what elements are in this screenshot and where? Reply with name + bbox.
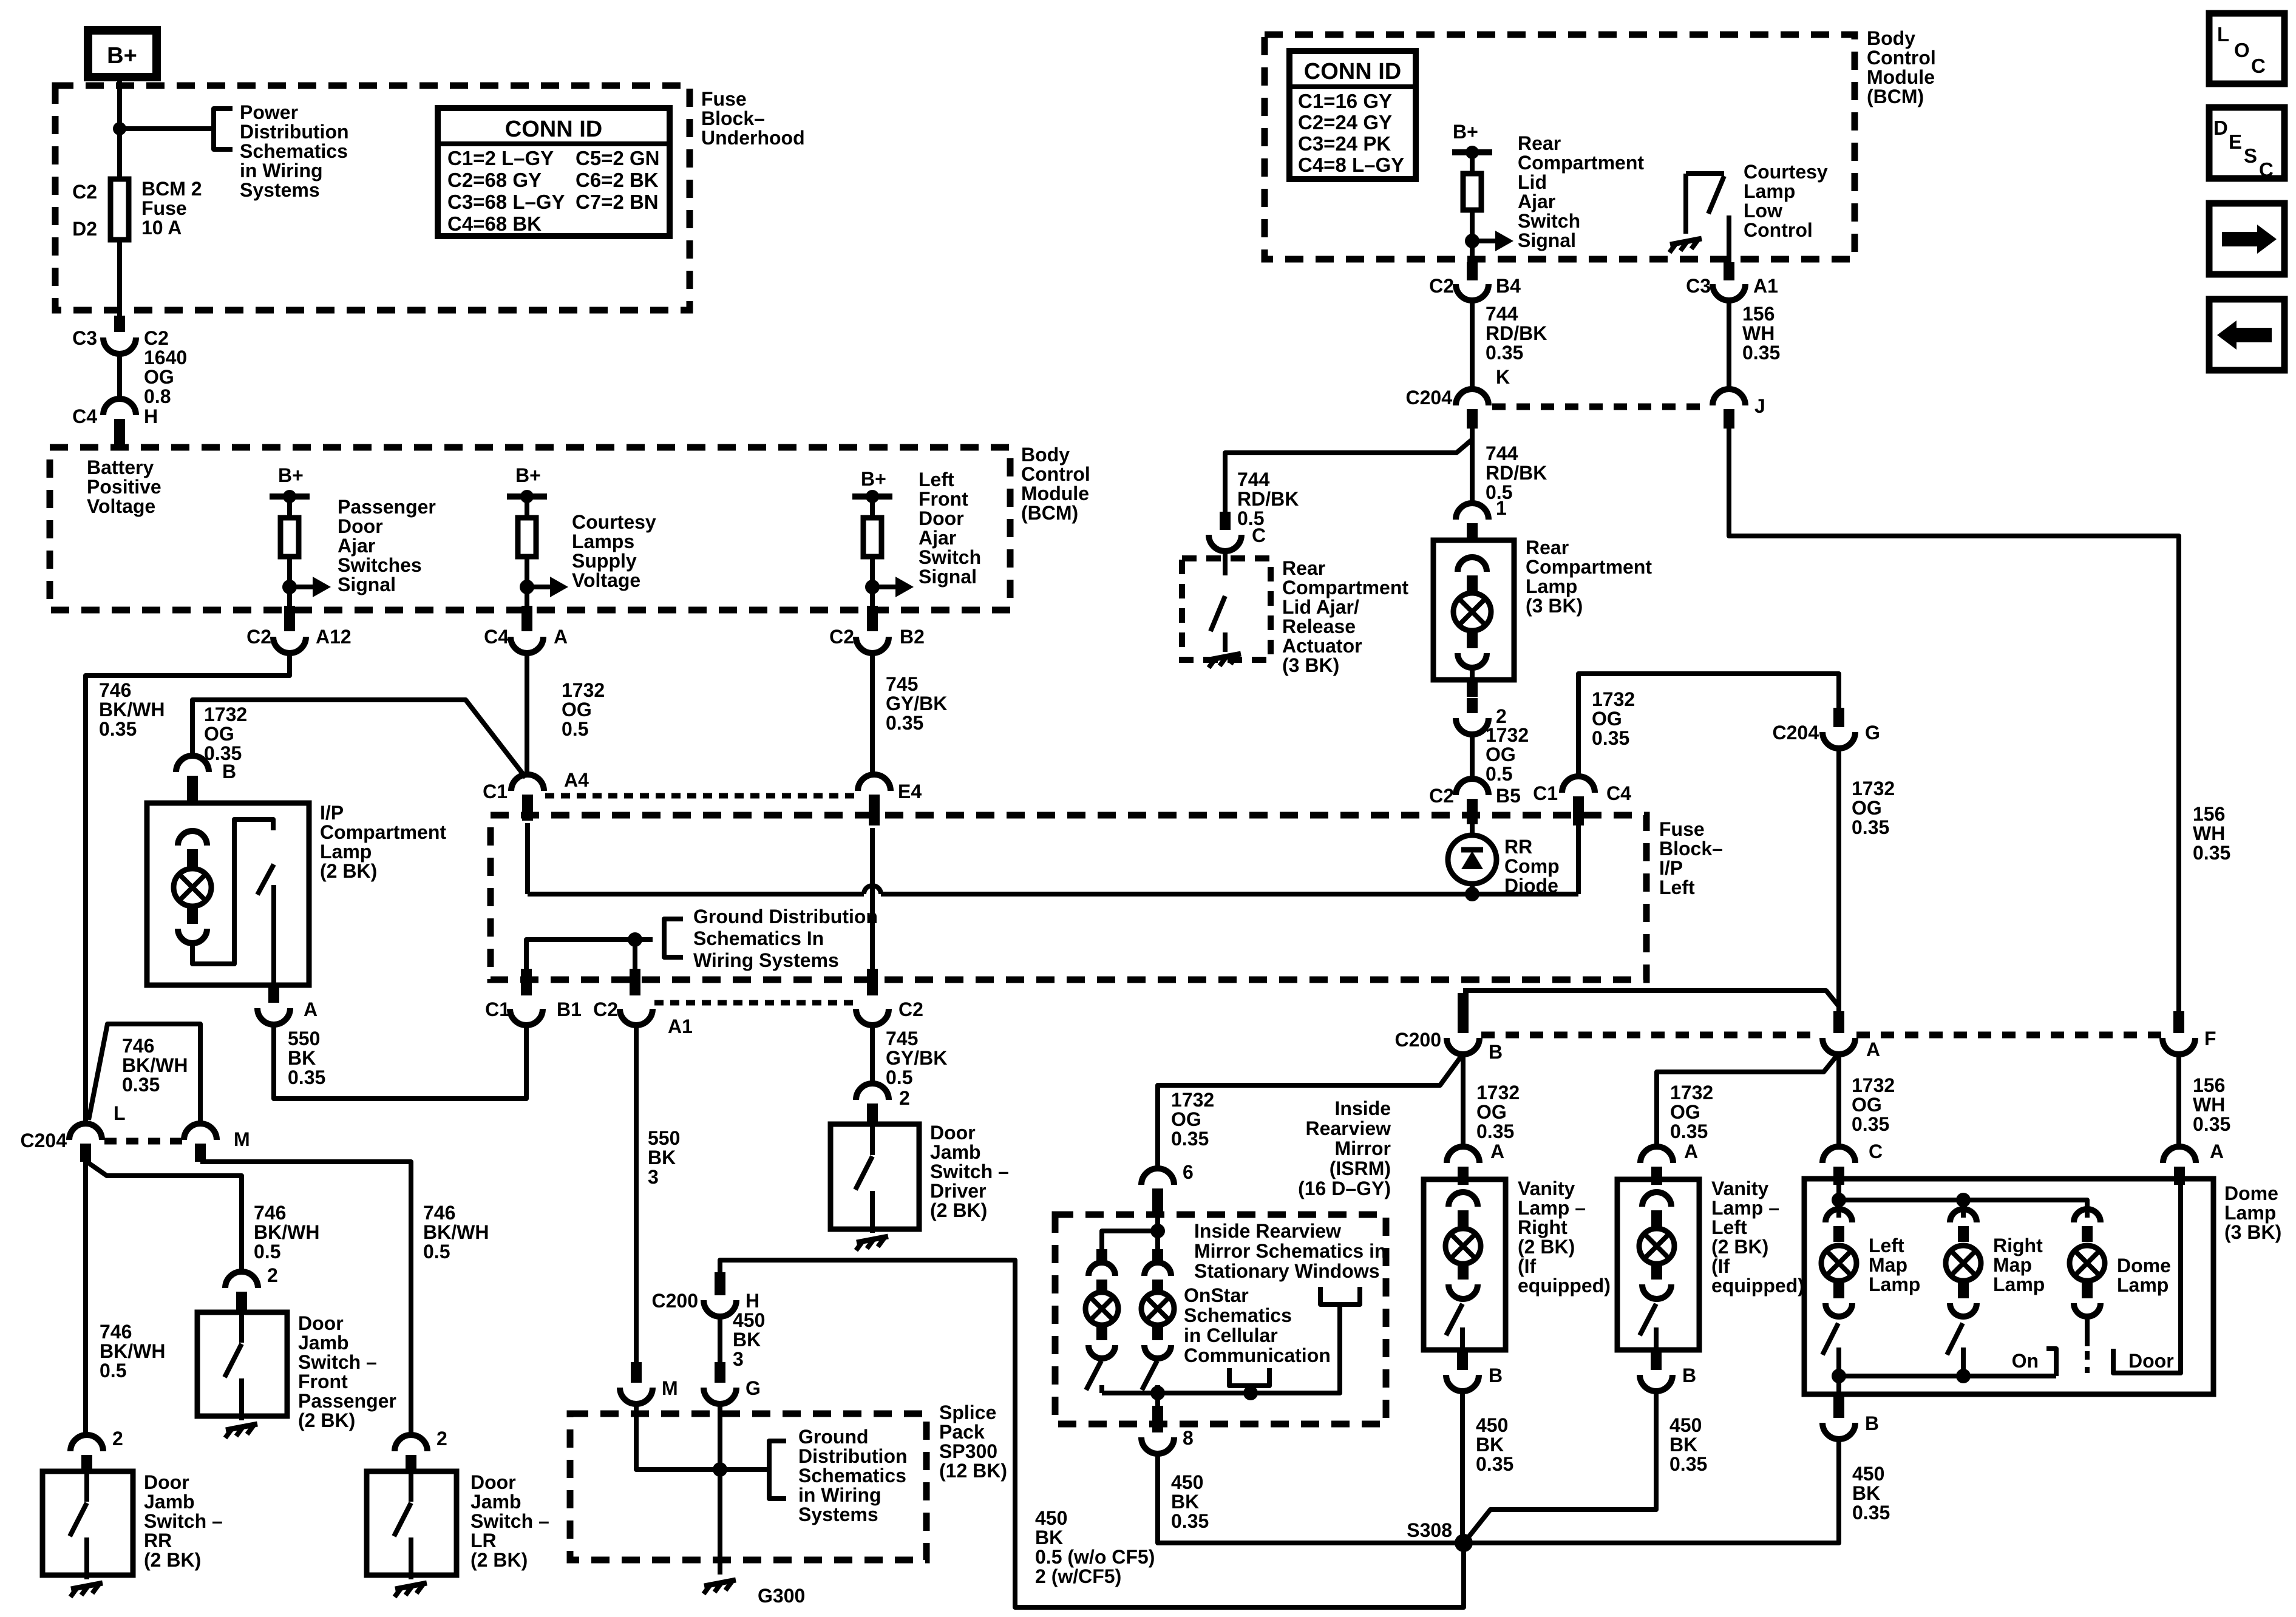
- svg-text:OG: OG: [144, 366, 174, 388]
- component box Vanity Lamp - Left: [1617, 1179, 1699, 1350]
- svg-text:Lamp: Lamp: [1744, 180, 1795, 202]
- wire 8 pin from bus: [1155, 1393, 1160, 1408]
- switch blade (right map lamp): [1947, 1323, 1963, 1355]
- power symbol B+ (battery feed, top left): [88, 30, 157, 77]
- svg-text:Ground Distribution: Ground Distribution: [693, 906, 878, 927]
- bulb socket bottom (vanity left): [1642, 1284, 1671, 1299]
- wire branch to actuator connector C: [1225, 439, 1472, 514]
- switch blade (mirror lamp left): [1086, 1361, 1101, 1390]
- junction dome feed left: [1832, 1193, 1846, 1207]
- svg-text:On: On: [2012, 1350, 2039, 1372]
- svg-text:Compartment: Compartment: [320, 821, 446, 843]
- connector G pin (splice pack): [715, 1362, 725, 1383]
- svg-text:C2=68 GY: C2=68 GY: [447, 169, 542, 191]
- svg-text:Driver: Driver: [930, 1180, 987, 1202]
- lamp I/P compartment: [174, 869, 211, 906]
- svg-text:L: L: [114, 1102, 126, 1124]
- svg-text:SP300: SP300: [939, 1440, 997, 1462]
- junction dome bus middle: [1956, 1369, 1971, 1383]
- svg-text:Block–: Block–: [701, 107, 765, 129]
- connector A (vanity right): [1447, 1147, 1479, 1163]
- svg-text:Battery: Battery: [87, 456, 154, 478]
- svg-text:C: C: [1252, 524, 1266, 546]
- svg-text:Mirror Schematics in: Mirror Schematics in: [1194, 1240, 1387, 1262]
- wire 1640 OG 0.8: [117, 354, 122, 399]
- bulb socket top (vanity right): [1449, 1192, 1478, 1207]
- svg-text:550: 550: [288, 1028, 320, 1049]
- svg-text:(2 BK): (2 BK): [144, 1549, 201, 1571]
- svg-text:Jamb: Jamb: [470, 1491, 521, 1513]
- wire 6 into ISRM box: [1155, 1198, 1160, 1231]
- svg-text:OG: OG: [1476, 1101, 1507, 1123]
- switch courtesy lamp low control: [1683, 174, 1688, 234]
- junction on B+ wire: [113, 122, 126, 135]
- svg-text:GY/BK: GY/BK: [886, 1047, 947, 1069]
- svg-text:Pack: Pack: [939, 1421, 985, 1443]
- svg-text:0.5 (w/o CF5): 0.5 (w/o CF5): [1035, 1546, 1155, 1568]
- svg-text:Courtesy: Courtesy: [572, 511, 656, 533]
- svg-text:Left: Left: [1659, 876, 1695, 898]
- connector 2 (rear lamp): [1456, 718, 1489, 734]
- connector 1 pin (rear compartment lamp): [1467, 523, 1478, 543]
- connector A pin (dome lamp door feed): [2174, 1167, 2185, 1185]
- svg-text:Signal: Signal: [919, 566, 977, 588]
- svg-text:BK/WH: BK/WH: [99, 699, 165, 720]
- svg-text:M: M: [234, 1128, 250, 1150]
- fuse BCM 2 10A: [110, 179, 129, 240]
- icon box arrow right: [2209, 203, 2284, 274]
- table CONN ID (BCM): [1289, 51, 1416, 179]
- dashed box Body Control Module (battery positive voltage section): [50, 447, 1010, 610]
- svg-text:OnStar: OnStar: [1184, 1284, 1249, 1306]
- wire 1732 OG 0.35 from B down to vanity right A: [1461, 1054, 1466, 1147]
- connector C2/A1 pin: [630, 969, 640, 995]
- svg-text:S308: S308: [1407, 1519, 1452, 1541]
- switch blade (front passenger): [225, 1344, 242, 1377]
- svg-text:Left: Left: [919, 469, 954, 490]
- svg-text:C2: C2: [593, 998, 618, 1020]
- wire B+ box down to BCM2 fuse: [117, 77, 122, 179]
- wire 1732 OG 0.35 branch to vanity left A: [1657, 1053, 1839, 1147]
- svg-text:450: 450: [1852, 1463, 1884, 1485]
- switch lower contact to A: [271, 885, 276, 985]
- bracket ISRM schematics reference: [1320, 1287, 1360, 1304]
- svg-text:450: 450: [733, 1309, 765, 1331]
- svg-text:Systems: Systems: [240, 179, 320, 201]
- svg-text:BK: BK: [733, 1329, 761, 1351]
- switch wire (RR): [84, 1471, 89, 1502]
- connector C4/H: [103, 399, 136, 415]
- svg-text:2: 2: [899, 1087, 910, 1109]
- resistance passenger door ajar switches: [280, 518, 299, 557]
- connector C2/A12: [273, 637, 306, 653]
- svg-text:Body: Body: [1021, 444, 1070, 466]
- svg-text:746: 746: [122, 1035, 154, 1057]
- switch contact (vanity left): [1654, 1327, 1659, 1350]
- svg-text:0.5: 0.5: [562, 718, 588, 740]
- connector A (vanity left): [1640, 1147, 1673, 1163]
- switch wire (front passenger): [239, 1312, 244, 1343]
- dashed box Body Control Module (rear section): [1265, 35, 1855, 259]
- svg-text:OG: OG: [1852, 1094, 1882, 1116]
- connector C204/J: [1713, 389, 1745, 405]
- wire 746 BK/WH 0.35 from A12 to C204 L: [86, 653, 290, 1123]
- connector C200/B pin: [1458, 993, 1469, 1033]
- wire branch 1732 OG 0.35 to I/P lamp B: [192, 700, 526, 778]
- connector C2/B5 pin: [1467, 799, 1478, 824]
- svg-text:C200: C200: [1395, 1029, 1442, 1051]
- junction dome bus left: [1832, 1369, 1846, 1383]
- svg-text:C1: C1: [485, 998, 510, 1020]
- svg-text:C204: C204: [21, 1130, 67, 1151]
- wire dome lamp moving contact: [2085, 1318, 2090, 1346]
- connector C4/H pin: [114, 419, 125, 447]
- dashed connector line C200 B-A: [1481, 1032, 1821, 1039]
- svg-text:Fuse: Fuse: [141, 197, 187, 219]
- svg-text:C200: C200: [652, 1290, 699, 1312]
- wire junction to reference bracket: [720, 1467, 769, 1472]
- connector C pin (dome lamp): [1833, 1167, 1844, 1185]
- svg-text:A: A: [1866, 1039, 1880, 1060]
- lamp rear compartment: [1453, 593, 1491, 631]
- svg-text:744: 744: [1486, 303, 1518, 325]
- svg-text:A: A: [1490, 1141, 1504, 1162]
- svg-text:BK: BK: [1852, 1482, 1880, 1504]
- bulb socket bottom (left map lamp): [1826, 1303, 1852, 1317]
- svg-text:0.35: 0.35: [886, 712, 923, 734]
- svg-text:WH: WH: [2193, 1094, 2225, 1116]
- svg-text:CONN ID: CONN ID: [505, 117, 602, 142]
- svg-text:C1=16 GY: C1=16 GY: [1298, 90, 1392, 112]
- bracket power distribution reference: [214, 109, 233, 149]
- svg-text:B+: B+: [515, 464, 541, 486]
- svg-text:Switch –: Switch –: [470, 1510, 549, 1532]
- junction OnStar stem on bus: [1243, 1386, 1258, 1400]
- switch contact (LR): [409, 1537, 413, 1579]
- wire dome lamp B out: [1836, 1376, 1841, 1394]
- wire 156 WH 0.35 from J over to F: [1729, 425, 2179, 1014]
- wire 450 BK 0.35 vanity right to S308: [1460, 1391, 1465, 1543]
- svg-text:A: A: [554, 626, 568, 648]
- svg-text:Lamp: Lamp: [1993, 1273, 2045, 1295]
- wire 450 BK 0.35 from 8 to S308: [1158, 1453, 1457, 1543]
- svg-text:0.35: 0.35: [1742, 342, 1780, 364]
- svg-text:Front: Front: [919, 488, 968, 510]
- svg-text:2 (w/CF5): 2 (w/CF5): [1035, 1565, 1121, 1587]
- lamp mirror left: [1085, 1292, 1118, 1325]
- svg-text:Right: Right: [1518, 1216, 1567, 1238]
- component box Door Jamb Switch - LR: [367, 1471, 457, 1575]
- connector 2 pin (RR): [81, 1455, 92, 1471]
- svg-text:0.35: 0.35: [1486, 342, 1523, 364]
- connector C1/A4 pin: [522, 795, 533, 821]
- svg-text:Vanity: Vanity: [1711, 1178, 1768, 1199]
- wire diode to feed line junction: [1470, 884, 1475, 894]
- switch blade courtesy lamp low control: [1708, 176, 1724, 214]
- wire mid map lamp column: [1961, 1200, 1966, 1218]
- svg-text:D: D: [2213, 117, 2228, 139]
- resistance left front door ajar switch: [863, 518, 881, 557]
- svg-text:(ISRM): (ISRM): [1330, 1158, 1391, 1179]
- connector C204/L pin: [80, 1144, 91, 1162]
- wire 156 WH 0.35 from F to dome A: [2176, 1054, 2181, 1147]
- svg-text:2: 2: [267, 1264, 278, 1286]
- bulb socket top (mirror lamp left): [1089, 1263, 1115, 1276]
- svg-text:WH: WH: [1742, 322, 1775, 344]
- svg-text:Map: Map: [1869, 1254, 1907, 1276]
- svg-text:C2: C2: [72, 181, 97, 203]
- svg-text:Distribution: Distribution: [240, 121, 349, 143]
- connector B (I/P compartment lamp): [176, 756, 209, 772]
- lamp vanity left: [1639, 1229, 1674, 1264]
- svg-text:C1: C1: [1533, 782, 1558, 804]
- wire 550 BK 0.35 from A to B1: [274, 1023, 526, 1099]
- svg-text:0.35: 0.35: [2193, 1113, 2230, 1135]
- wire 1732 OG 0.35 from C4 up over to C204 G: [1578, 674, 1839, 777]
- arrow passenger door ajar switches signal: [282, 580, 297, 594]
- switch contact (right map lamp): [1961, 1347, 1966, 1376]
- svg-text:C3=68 L–GY: C3=68 L–GY: [447, 191, 565, 213]
- svg-text:C: C: [2259, 158, 2274, 181]
- svg-text:(2 BK): (2 BK): [320, 860, 377, 882]
- svg-text:0.35: 0.35: [1476, 1453, 1513, 1475]
- svg-text:C2: C2: [246, 626, 271, 648]
- switch blade (lid ajar/release actuator): [1211, 596, 1225, 631]
- connector B pin (dome lamp): [1833, 1392, 1844, 1418]
- svg-text:C1: C1: [483, 781, 508, 802]
- wire 1 into rear compartment lamp: [1470, 497, 1475, 505]
- svg-text:K: K: [1496, 366, 1510, 388]
- svg-text:0.35: 0.35: [1852, 1113, 1889, 1135]
- svg-text:Dome: Dome: [2117, 1255, 2171, 1276]
- svg-text:BK: BK: [648, 1147, 676, 1168]
- bulb socket top (right map lamp): [1950, 1209, 1977, 1222]
- svg-text:C4: C4: [1606, 782, 1631, 804]
- svg-text:Lamp: Lamp: [2224, 1202, 2276, 1224]
- svg-text:Dome: Dome: [2224, 1182, 2278, 1204]
- connector C3/A1: [1713, 284, 1745, 300]
- connector C2/B4: [1456, 284, 1489, 300]
- svg-text:C7=2 BN: C7=2 BN: [576, 191, 659, 213]
- dome feed bus: [1839, 1200, 2087, 1218]
- wire G to ground G300: [718, 1403, 722, 1575]
- component box I/P Compartment Lamp: [147, 803, 309, 985]
- bulb socket bottom (I/P lamp): [178, 929, 207, 943]
- lamp left map: [1821, 1246, 1856, 1281]
- wire 1732 OG 0.5 from A to A4: [525, 653, 529, 776]
- wire B+ to output B2: [870, 497, 875, 608]
- svg-text:B: B: [1865, 1412, 1879, 1434]
- connector C1/B1 pin: [521, 969, 532, 995]
- connector C3/C2: [103, 337, 136, 354]
- connector C (dome lamp): [1822, 1147, 1855, 1163]
- svg-text:Rear: Rear: [1282, 557, 1325, 579]
- svg-text:RD/BK: RD/BK: [1486, 322, 1547, 344]
- wire 450 BK 0.35 vanity left to S308: [1467, 1391, 1656, 1539]
- svg-text:Control: Control: [1744, 219, 1813, 241]
- connector C3/C2 pin: [114, 316, 125, 332]
- svg-text:1732: 1732: [562, 679, 605, 701]
- svg-text:1: 1: [1496, 497, 1507, 519]
- connector C2/E4 pin: [869, 795, 880, 825]
- bulb socket top (left map lamp): [1826, 1209, 1852, 1222]
- svg-text:Ajar: Ajar: [1518, 191, 1555, 212]
- svg-text:RD/BK: RD/BK: [1237, 488, 1299, 510]
- stem OnStar bracket to bus: [1248, 1386, 1253, 1393]
- svg-text:OG: OG: [1592, 708, 1622, 730]
- dashed BCM connector line A4-E4: [545, 793, 857, 799]
- svg-text:1732: 1732: [1171, 1089, 1214, 1111]
- ground (LR jamb switch): [395, 1583, 427, 1589]
- bulb socket bottom (right map lamp): [1950, 1303, 1977, 1317]
- svg-text:OG: OG: [1486, 744, 1516, 765]
- svg-text:Ajar: Ajar: [919, 527, 956, 549]
- svg-text:Fuse: Fuse: [1659, 818, 1705, 840]
- connector G (splice pack): [704, 1388, 736, 1404]
- wire A4 down to fuse block feed line: [525, 823, 530, 894]
- connector 2 pin (driver jamb): [867, 1103, 878, 1123]
- connector C204/K: [1456, 389, 1489, 405]
- connector C2/B2 pin: [867, 606, 878, 631]
- svg-text:0.35: 0.35: [99, 718, 137, 740]
- svg-text:BK: BK: [1171, 1491, 1199, 1513]
- svg-text:BCM 2: BCM 2: [141, 178, 202, 200]
- svg-text:0.35: 0.35: [1852, 1502, 1890, 1524]
- svg-text:C2: C2: [144, 327, 169, 349]
- svg-text:(3 BK): (3 BK): [1282, 654, 1339, 676]
- svg-text:745: 745: [886, 673, 918, 695]
- svg-text:(2 BK): (2 BK): [470, 1549, 528, 1571]
- svg-text:Inside: Inside: [1335, 1097, 1391, 1119]
- svg-text:C2=24 GY: C2=24 GY: [1298, 111, 1392, 134]
- wire ISRM feed down to right mirror lamp: [1155, 1231, 1160, 1249]
- switch wire (LR): [409, 1471, 413, 1502]
- wire 156 WH 0.35 from A1 to C204 J: [1727, 300, 1731, 391]
- svg-text:(2 BK): (2 BK): [1518, 1236, 1575, 1258]
- connector A (dome lamp door feed): [2163, 1147, 2196, 1163]
- svg-text:M: M: [662, 1377, 678, 1399]
- svg-text:Wiring Systems: Wiring Systems: [693, 949, 839, 971]
- wire courtesy lamp low control to C3/A1: [1727, 215, 1731, 280]
- Door contact bracket fed by A: [2113, 1179, 2181, 1373]
- svg-text:RD/BK: RD/BK: [1486, 462, 1547, 484]
- svg-text:OG: OG: [1670, 1101, 1700, 1123]
- svg-text:Schematics: Schematics: [1184, 1304, 1292, 1326]
- svg-text:C3: C3: [1686, 275, 1711, 297]
- svg-text:Door: Door: [930, 1122, 976, 1144]
- svg-text:0.35: 0.35: [1171, 1510, 1209, 1532]
- icon box LOC: [2209, 13, 2284, 84]
- svg-text:0.35: 0.35: [1669, 1453, 1707, 1475]
- svg-text:A4: A4: [564, 769, 589, 791]
- switch contact (left map lamp): [1836, 1347, 1841, 1376]
- svg-text:C: C: [2251, 55, 2266, 77]
- svg-text:3: 3: [648, 1166, 659, 1188]
- wire 1732 OG 0.35 from B to ISRM 6: [1158, 1054, 1463, 1169]
- svg-text:G: G: [746, 1377, 761, 1399]
- svg-text:1732: 1732: [1486, 724, 1529, 746]
- svg-text:C2: C2: [1429, 275, 1454, 297]
- svg-text:Schematics: Schematics: [240, 140, 348, 162]
- svg-text:BK/WH: BK/WH: [100, 1340, 165, 1362]
- switch contact (vanity right): [1460, 1327, 1465, 1350]
- connector B (vanity left): [1640, 1375, 1673, 1391]
- svg-text:Left: Left: [1869, 1235, 1904, 1256]
- svg-text:Ajar: Ajar: [338, 535, 375, 557]
- wire left map lamp column: [1836, 1200, 1841, 1218]
- switch wire (driver jamb): [870, 1124, 875, 1155]
- svg-text:BK: BK: [1035, 1527, 1063, 1548]
- svg-text:450: 450: [1476, 1414, 1508, 1436]
- svg-text:Lid: Lid: [1518, 171, 1547, 193]
- svg-text:Lamp: Lamp: [2117, 1274, 2169, 1296]
- svg-text:744: 744: [1237, 469, 1270, 490]
- svg-text:Release: Release: [1282, 615, 1356, 637]
- switch blade (LR): [394, 1503, 411, 1536]
- svg-text:RR: RR: [1504, 836, 1532, 858]
- svg-text:(3 BK): (3 BK): [2224, 1221, 2281, 1243]
- svg-text:C5=2 GN: C5=2 GN: [576, 147, 659, 169]
- wire to power-distribution reference bracket: [120, 126, 214, 131]
- bulb socket bottom (dome lamp): [2074, 1303, 2101, 1317]
- svg-text:C2: C2: [829, 626, 854, 648]
- lamp vanity right: [1445, 1229, 1481, 1264]
- svg-text:2: 2: [436, 1428, 447, 1449]
- svg-text:E: E: [2229, 131, 2242, 153]
- junction mirror right on bus: [1150, 1386, 1165, 1400]
- connector 6 pin (ISRM): [1152, 1188, 1163, 1213]
- dashed BCM connector line A1-C2: [654, 1000, 853, 1006]
- bulb socket top (vanity left): [1642, 1192, 1671, 1207]
- wire 550 BK 3 from A1 to splice pack M: [634, 1025, 639, 1366]
- switch blade (mirror lamp right): [1142, 1361, 1157, 1390]
- svg-text:in Wiring: in Wiring: [798, 1484, 881, 1506]
- svg-text:Power: Power: [240, 101, 298, 123]
- switch contact (actuator) to ground: [1223, 632, 1228, 652]
- ISRM ground bus: [1102, 1304, 1340, 1393]
- svg-text:Voltage: Voltage: [572, 569, 640, 591]
- dome switch ground bus (On position): [1839, 1374, 1963, 1378]
- svg-text:Inside Rearview: Inside Rearview: [1194, 1220, 1341, 1242]
- svg-text:B+: B+: [861, 468, 886, 490]
- svg-text:0.35: 0.35: [1171, 1128, 1209, 1150]
- connector C204/M: [184, 1124, 217, 1140]
- svg-text:OG: OG: [1171, 1108, 1201, 1130]
- svg-text:Switch –: Switch –: [930, 1161, 1009, 1182]
- svg-text:(BCM): (BCM): [1021, 502, 1078, 524]
- svg-text:Module: Module: [1867, 66, 1935, 88]
- svg-text:2: 2: [112, 1428, 123, 1449]
- connector C204/J pin: [1724, 409, 1734, 429]
- svg-text:Positive: Positive: [87, 476, 161, 498]
- svg-text:Signal: Signal: [1518, 229, 1576, 251]
- svg-text:Vanity: Vanity: [1518, 1178, 1575, 1199]
- wire B+ to output A12: [287, 497, 292, 608]
- svg-text:C6=2 BK: C6=2 BK: [576, 169, 659, 191]
- svg-text:(12 BK): (12 BK): [939, 1460, 1007, 1482]
- svg-text:0.35: 0.35: [1670, 1120, 1708, 1142]
- svg-text:0.5: 0.5: [1486, 763, 1512, 785]
- connector B (vanity right): [1446, 1375, 1479, 1391]
- svg-text:equipped): equipped): [1518, 1275, 1611, 1297]
- connector C2/B2: [856, 637, 889, 653]
- svg-text:0.35: 0.35: [1476, 1120, 1514, 1142]
- connector M pin (splice pack): [631, 1362, 642, 1383]
- bulb socket top (dome lamp): [2074, 1209, 2101, 1222]
- svg-text:B+: B+: [278, 464, 304, 486]
- wire 1732 OG 0.35 from G down to C200: [1836, 748, 1841, 1016]
- junction on ground distribution wire: [628, 932, 642, 947]
